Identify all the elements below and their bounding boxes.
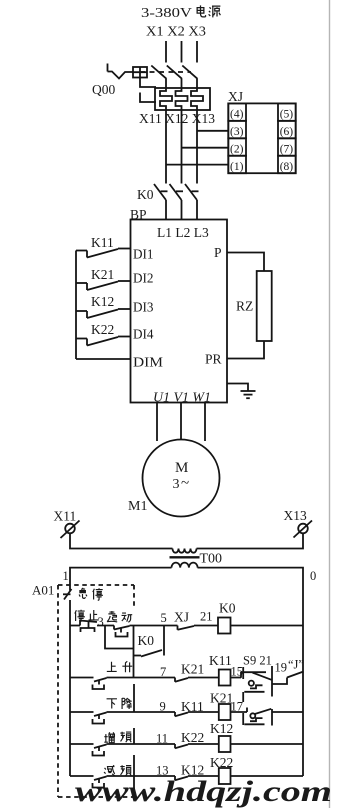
- svg-text:X1 X2 X3: X1 X2 X3: [146, 25, 206, 40]
- svg-text:19: 19: [275, 661, 288, 675]
- limit switch S9 contact lower: [244, 708, 271, 725]
- svg-text:0: 0: [310, 569, 316, 583]
- transformer core: [170, 556, 200, 558]
- wire X13 to T00: [197, 534, 304, 549]
- wire latch branch: [105, 626, 133, 649]
- button 增频 NO: [93, 745, 107, 756]
- wire rung11 left: [70, 743, 94, 745]
- motor M1 circle: [143, 440, 220, 517]
- wire rung13 left: [70, 775, 94, 777]
- contact K11 rung9: [175, 712, 188, 716]
- thermal overload box: [155, 88, 210, 110]
- svg-text:T00: T00: [200, 552, 223, 567]
- svg-text:XJ: XJ: [228, 89, 243, 104]
- contactor K0 pole B: [170, 184, 184, 220]
- wire node 21 vertical: [271, 666, 273, 697]
- wire rung11 mid: [188, 743, 219, 745]
- wire rung7 mid: [188, 677, 219, 679]
- contact K12: [76, 309, 131, 318]
- svg-text:(3): (3): [230, 126, 244, 138]
- svg-text:K12: K12: [91, 294, 114, 309]
- svg-text:U1 V1 W1: U1 V1 W1: [153, 390, 211, 405]
- wire phase A mid: [165, 110, 167, 184]
- svg-text:X11: X11: [54, 509, 77, 524]
- wire motor U1: [156, 403, 158, 442]
- wire node 21 lower segment: [271, 709, 273, 726]
- grey page border line right: [329, 0, 331, 808]
- label 下降: [107, 698, 132, 709]
- wire rung1 left: [70, 625, 80, 627]
- wire rung11: [107, 743, 176, 745]
- svg-text:XJ: XJ: [174, 610, 189, 625]
- wire secondary right to node 0: [198, 568, 304, 776]
- contact K11: [76, 249, 131, 258]
- wire DI left bus: [75, 251, 77, 360]
- label M 3~: [173, 460, 190, 492]
- svg-text:K0: K0: [138, 633, 155, 648]
- wire tap X11 to XJ(1): [166, 164, 228, 166]
- button 起动 start NO: [114, 626, 130, 637]
- wire phase C stub: [196, 79, 198, 89]
- linkage hook upper: [140, 78, 156, 88]
- svg-text:17: 17: [231, 700, 244, 714]
- coil K0: [218, 618, 231, 634]
- svg-text:DI1: DI1: [133, 247, 154, 262]
- svg-text:L1 L2 L3: L1 L2 L3: [157, 225, 209, 240]
- wire rung9 left: [70, 711, 94, 713]
- svg-text:11: 11: [156, 732, 168, 746]
- wire ground stub: [227, 384, 248, 392]
- svg-text:(1): (1): [230, 161, 244, 173]
- svg-text:M1: M1: [128, 499, 147, 514]
- coil K21: [219, 704, 231, 720]
- svg-text:K12: K12: [210, 721, 233, 736]
- svg-text:A01: A01: [32, 583, 54, 598]
- contact K12 rung13: [175, 776, 188, 780]
- svg-text:3-380V: 3-380V: [141, 6, 192, 21]
- wire phase B stub: [181, 79, 183, 89]
- wire rung7: [107, 677, 176, 679]
- terminal (2): [228, 138, 246, 155]
- svg-text:Q00: Q00: [92, 82, 115, 97]
- wire tap X13 to XJ(3): [197, 130, 228, 132]
- contactor K0 pole C: [185, 184, 199, 220]
- svg-text:P: P: [214, 245, 222, 260]
- terminal (4): [228, 103, 246, 120]
- svg-text:~: ~: [181, 476, 189, 492]
- breaker Q00 blade A: [151, 66, 166, 79]
- contactor K0 pole A: [154, 184, 168, 220]
- thermal element B: [176, 88, 188, 110]
- breaker Q00 handle: [108, 64, 134, 79]
- svg-text:3: 3: [173, 477, 180, 492]
- wire rung9 right: [272, 711, 303, 713]
- svg-text:7: 7: [160, 665, 166, 679]
- wire rung11 right: [231, 743, 304, 745]
- transformer T00 primary: [173, 549, 197, 553]
- wire rung7 left: [70, 677, 94, 679]
- svg-text:K22: K22: [181, 730, 204, 745]
- terminal (1): [228, 156, 246, 173]
- svg-text:K0: K0: [219, 601, 236, 616]
- svg-text:X13: X13: [284, 508, 307, 523]
- svg-text:K22: K22: [91, 322, 114, 337]
- contact K0 latch: [134, 650, 163, 657]
- terminal X13: [294, 521, 313, 538]
- wire latch left vertical: [133, 626, 135, 678]
- coil K11: [219, 670, 231, 686]
- coil K22: [219, 768, 231, 784]
- wire node3 drop segment D: [133, 776, 135, 794]
- svg-text:RZ: RZ: [236, 299, 253, 314]
- wire phase A top: [165, 41, 167, 63]
- terminal (6): [278, 121, 296, 138]
- breaker Q00 operator box: [133, 67, 147, 78]
- thermal element A: [160, 88, 172, 110]
- svg-text:(6): (6): [280, 126, 294, 138]
- title 3-380V 电源: [141, 5, 220, 21]
- svg-text:PR: PR: [205, 352, 222, 367]
- contact J: [272, 672, 304, 685]
- wire phase A stub: [165, 79, 167, 89]
- svg-text:K0: K0: [137, 187, 154, 202]
- wire node3 drop segment B: [133, 728, 135, 744]
- thermal element C: [191, 88, 203, 110]
- wire K0 coil to bus0: [231, 625, 304, 627]
- wire secondary left to node 1: [70, 568, 172, 591]
- enclosure A01 dashed box: [58, 585, 134, 797]
- wire phase C top: [196, 41, 198, 63]
- wire rung9: [107, 711, 176, 713]
- svg-text:9: 9: [160, 700, 166, 714]
- limit switch S9 contact upper: [241, 672, 272, 692]
- terminal (5): [278, 103, 296, 120]
- wire phase C mid: [196, 110, 198, 184]
- wire node3 drop segment C: [133, 755, 135, 776]
- svg-text:(4): (4): [230, 109, 244, 121]
- svg-text:(5): (5): [280, 109, 294, 121]
- wire RZ to PR: [227, 341, 264, 359]
- svg-text:www.hdqzj.com: www.hdqzj.com: [75, 775, 332, 808]
- svg-text:X11 X12 X13: X11 X12 X13: [139, 111, 215, 126]
- svg-text:S9 21: S9 21: [243, 654, 272, 668]
- contact K21: [76, 281, 131, 290]
- svg-text:DIM: DIM: [133, 355, 163, 370]
- svg-text:DI2: DI2: [133, 271, 154, 286]
- label 增频: [104, 732, 131, 743]
- wire tap X12 to XJ(2): [182, 147, 229, 149]
- inverter BP box: [131, 220, 228, 403]
- svg-text:1: 1: [63, 569, 69, 583]
- wire node3 drop segment A: [133, 684, 135, 712]
- button 上升 NO: [93, 678, 107, 689]
- ground: [241, 391, 256, 398]
- wire rung13 right: [231, 775, 304, 777]
- contact K21 rung7: [175, 678, 188, 682]
- wire motor W1: [204, 403, 206, 442]
- svg-text:K21: K21: [91, 267, 114, 282]
- breaker Q00 blade B: [167, 66, 182, 79]
- svg-text:M: M: [175, 460, 188, 476]
- button 减频 NO: [93, 777, 107, 788]
- label 减频: [104, 765, 131, 776]
- svg-text:3: 3: [98, 615, 104, 629]
- button 下降 NO: [93, 713, 107, 724]
- linkage hook lower: [140, 93, 156, 103]
- svg-text:DI4: DI4: [133, 327, 154, 342]
- resistor RZ: [257, 271, 272, 341]
- svg-text:(2): (2): [230, 143, 244, 155]
- coil K12: [219, 736, 231, 752]
- svg-text:(8): (8): [280, 161, 294, 173]
- button 急停 emergency stop: [63, 589, 72, 776]
- terminal (3): [228, 121, 246, 138]
- svg-text:K21: K21: [181, 662, 204, 677]
- connector XJ outer box: [228, 103, 295, 173]
- label 上升: [107, 661, 132, 672]
- breaker mechanical link dashed: [140, 71, 191, 73]
- wire rung1 to node5: [130, 625, 178, 627]
- wire rung9 mid: [188, 711, 219, 713]
- wire X11 to T00: [70, 534, 173, 549]
- label 起动: [107, 611, 132, 622]
- contact K22 rung11: [175, 744, 188, 748]
- terminal (8): [278, 156, 296, 173]
- wire motor V1: [180, 403, 182, 441]
- wire coil to S9 lower: [231, 711, 248, 713]
- wire phase B mid: [181, 110, 183, 184]
- svg-text:K11: K11: [209, 653, 232, 668]
- contact XJ: [178, 626, 195, 630]
- wire latch right vertical: [163, 626, 165, 656]
- contact K22: [76, 337, 131, 346]
- button 停止 stop NC: [80, 620, 97, 633]
- breaker Q00 blade C: [182, 66, 197, 79]
- transformer T00 secondary: [172, 563, 198, 568]
- wire phase B top: [181, 41, 183, 63]
- label 停止: [75, 610, 99, 622]
- terminal (7): [278, 138, 296, 155]
- svg-text:(7): (7): [280, 143, 294, 155]
- wire node3: [97, 625, 114, 627]
- wire DIM: [76, 358, 131, 360]
- svg-text:“J”: “J”: [288, 658, 304, 672]
- wire rung13: [107, 775, 176, 777]
- wire rung13 mid: [188, 775, 219, 777]
- wire P to RZ: [227, 253, 264, 272]
- S9 mech link dashes left: [242, 667, 244, 725]
- svg-text:K11: K11: [91, 235, 114, 250]
- wire node21: [194, 625, 218, 627]
- svg-text:5: 5: [161, 611, 167, 625]
- svg-text:DI3: DI3: [133, 300, 154, 315]
- terminal X11: [61, 521, 80, 539]
- label 急停: [79, 588, 103, 600]
- wire coil to S9: [231, 677, 242, 679]
- svg-text:21: 21: [200, 610, 213, 624]
